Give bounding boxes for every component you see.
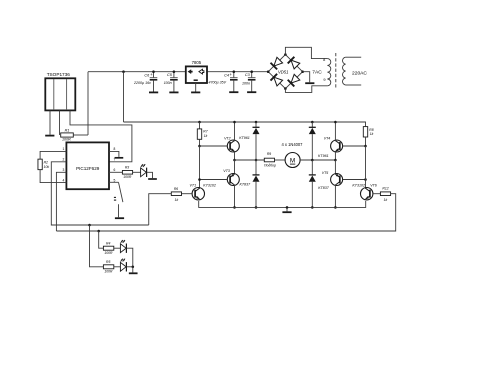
wire R3 to LED HL1 bbox=[133, 171, 141, 173]
wire R1 to +V feed bbox=[73, 134, 88, 136]
wire motor to right column bbox=[300, 159, 335, 161]
svg-text:KT837: KT837 bbox=[318, 186, 330, 190]
wire HL2 cathode to join bbox=[127, 248, 133, 267]
wire bridge top to secondary pin 8 bbox=[285, 47, 327, 58]
svg-text:8: 8 bbox=[323, 57, 325, 62]
wire VT4 collector to rail bbox=[334, 122, 336, 141]
node VT5 base tap bbox=[364, 178, 367, 181]
svg-text:VT2: VT2 bbox=[224, 136, 231, 140]
svg-text:VT3: VT3 bbox=[223, 169, 230, 173]
transformer T1 primary winding bbox=[343, 57, 346, 85]
resistor R8 body bbox=[363, 127, 367, 137]
svg-text:100R: 100R bbox=[123, 175, 132, 179]
wire VT3 base bbox=[200, 179, 228, 181]
wire TSOP pin1 to ground bbox=[49, 110, 51, 134]
node bridge top corner bbox=[284, 53, 287, 56]
svg-text:VT5: VT5 bbox=[322, 171, 329, 175]
node C3 top bbox=[250, 70, 253, 73]
wire pin6 to R3 bbox=[109, 171, 122, 173]
wire bridge bottom to secondary pin 9 bbox=[285, 86, 327, 93]
wire emitters node to R9 bbox=[235, 159, 265, 161]
wire +V feed down to R1/TSOP supply bbox=[87, 72, 89, 135]
wire H-bridge bottom rail bbox=[199, 201, 366, 207]
svg-text:PIC12F629: PIC12F629 bbox=[76, 166, 100, 171]
resistor R7 body bbox=[197, 129, 201, 139]
node ground tap bbox=[286, 206, 289, 209]
switch SB1 blade bbox=[119, 182, 123, 202]
svg-text:KT961: KT961 bbox=[318, 154, 329, 158]
svg-text:2200µ 16v: 2200µ 16v bbox=[133, 81, 151, 85]
svg-text:100n: 100n bbox=[164, 81, 172, 85]
wire primary top lead bbox=[346, 56, 362, 58]
IR receiver U2 TSOP1736 body bbox=[45, 78, 75, 110]
bridge diode top-left bbox=[274, 57, 283, 66]
diode VD3 (right top, 1N4007) bbox=[309, 126, 316, 128]
svg-text:KT3102: KT3102 bbox=[203, 184, 216, 188]
svg-text:100n: 100n bbox=[242, 81, 250, 85]
wire right top diode to mid bbox=[311, 134, 313, 160]
svg-text:R1: R1 bbox=[65, 129, 70, 133]
svg-text:R6: R6 bbox=[174, 187, 178, 191]
wire bridge right corner to ground bbox=[303, 72, 310, 83]
svg-text:VT6: VT6 bbox=[370, 184, 377, 188]
node VT4 base / VT6 collector bbox=[364, 145, 367, 148]
7805 output arrow (solid) bbox=[188, 69, 193, 74]
node LED cathodes join bbox=[132, 266, 135, 269]
transistor VT1 KT3102 bbox=[192, 188, 204, 200]
resistor R12 body bbox=[380, 192, 390, 196]
regulator U3 7805 body bbox=[186, 66, 207, 83]
transformer T1 secondary winding bbox=[327, 59, 330, 86]
svg-text:R9: R9 bbox=[267, 152, 271, 156]
node rail / left diode column bbox=[255, 121, 258, 124]
svg-text:R3: R3 bbox=[125, 166, 129, 170]
svg-text:1k: 1k bbox=[175, 198, 179, 202]
node right emitters / motor wire bbox=[334, 159, 337, 162]
svg-text:10k: 10k bbox=[44, 165, 50, 169]
node VT2 base / VT1 collector bbox=[198, 145, 201, 148]
ground TSOP pin1 bbox=[45, 135, 54, 137]
wire rail to R7 bbox=[199, 122, 201, 129]
wire +V rail from x=88 to bridge bbox=[88, 71, 268, 73]
switch contact marks bbox=[114, 196, 116, 198]
wire pin5 to switch bbox=[109, 181, 119, 183]
wire base node down to VT6 collector bbox=[365, 146, 367, 189]
svg-text:1k: 1k bbox=[204, 134, 208, 138]
svg-text:R12: R12 bbox=[382, 187, 388, 191]
bridge VD51 diamond outline bbox=[268, 55, 302, 89]
LED HL2 bbox=[120, 244, 126, 253]
wire primary bottom lead bbox=[346, 84, 362, 86]
wire TSOP pin3 OUT to PIC pin7 bbox=[70, 110, 132, 161]
svg-text:9: 9 bbox=[323, 77, 325, 82]
node rail/R7 bbox=[198, 121, 201, 124]
node VT4 collector rail bbox=[334, 121, 337, 124]
wire HL1 cathode to ground bbox=[147, 172, 153, 178]
svg-text:1: 1 bbox=[62, 147, 64, 151]
svg-text:1k: 1k bbox=[384, 198, 388, 202]
node left diode bottom rail bbox=[255, 206, 258, 209]
svg-text:7AC: 7AC bbox=[312, 70, 322, 76]
node left diode mid bbox=[255, 159, 258, 162]
svg-text:100R: 100R bbox=[62, 137, 71, 141]
svg-text:KT837: KT837 bbox=[240, 183, 252, 187]
resistor R5 body bbox=[103, 265, 113, 269]
node wire1 / R5 branch bbox=[88, 224, 91, 227]
node VT3 collector bottom rail bbox=[233, 206, 236, 209]
node VT5 collector bottom rail bbox=[334, 206, 337, 209]
ground bridge minus bbox=[305, 82, 314, 84]
svg-text:4700µ 35V: 4700µ 35V bbox=[209, 81, 227, 85]
bridge diode bottom-right bbox=[291, 74, 300, 83]
ground switch bbox=[115, 217, 124, 219]
wire mid to right bottom diode bbox=[311, 160, 313, 175]
ground 7805 bbox=[191, 91, 200, 93]
LED HL3 bbox=[120, 262, 126, 271]
node rail / right diode column bbox=[311, 121, 314, 124]
transformer core (dashed) bbox=[335, 53, 337, 89]
wire VT4 emitter to right mid node bbox=[334, 151, 336, 160]
node VT3 base tap bbox=[198, 178, 201, 181]
node C6 top bbox=[152, 70, 155, 73]
capacitor C6 2200u bbox=[153, 72, 155, 78]
wire R2 bottom to pin4 bbox=[40, 170, 66, 183]
motor M1 bbox=[285, 153, 300, 168]
diode VD4 (right bottom, 1N4007) bbox=[309, 174, 316, 176]
transistor VT6 KT3102 bbox=[361, 188, 373, 200]
wire R5 branch down bbox=[90, 225, 104, 267]
wire VT5 base bbox=[343, 179, 366, 181]
ground HL1 bbox=[148, 178, 157, 180]
svg-text:5: 5 bbox=[114, 178, 116, 182]
wire R5 to LED HL3 bbox=[114, 266, 121, 268]
wire R9 to motor bbox=[275, 159, 286, 161]
node bridge right corner bbox=[301, 70, 304, 73]
node left emitters / motor wire bbox=[233, 159, 236, 162]
wire mid to left bottom diode bbox=[255, 160, 257, 175]
bridge diode top-right bbox=[291, 60, 300, 69]
node right diode mid bbox=[311, 159, 314, 162]
node bridge bottom corner bbox=[284, 87, 287, 90]
node +V rail / H-bridge feed bbox=[122, 70, 125, 73]
transistor VT3 KT837 bbox=[227, 174, 239, 186]
node C5 top bbox=[173, 70, 176, 73]
wire VT6 base to R12 bbox=[373, 193, 380, 195]
transistor VT5 KT837 bbox=[331, 174, 343, 186]
svg-text:1k: 1k bbox=[370, 132, 374, 136]
resistor R3 body bbox=[122, 171, 132, 175]
wire VT2 collector to rail bbox=[234, 122, 236, 141]
svg-text:TSOP1736: TSOP1736 bbox=[47, 72, 71, 77]
wire VT5 emitter from mid node bbox=[334, 160, 336, 174]
wire VT5 collector to bottom rail bbox=[334, 185, 336, 208]
wire pin2 to control wire 1 bbox=[51, 162, 148, 225]
wire TSOP pin2 down to R1 bbox=[59, 110, 61, 135]
svg-text:220AC: 220AC bbox=[352, 71, 367, 77]
wire pin3 to control wire 2 bbox=[56, 172, 66, 231]
wire pin8 to ground bbox=[109, 151, 119, 157]
wire R6 left to control wire 1 bbox=[149, 194, 172, 225]
node C4 top bbox=[233, 70, 236, 73]
wire +V drop to H-bridge top rail bbox=[123, 72, 125, 122]
ground C5 bbox=[169, 91, 178, 93]
capacitor C5 100n bbox=[173, 72, 175, 78]
wire LED join to ground bbox=[132, 267, 134, 273]
wire left bottom diode to bottom rail bbox=[255, 182, 257, 208]
wire bottom rail ground tap bbox=[286, 207, 288, 211]
svg-text:VT1: VT1 bbox=[190, 184, 197, 188]
wire R7 to VT2 base node bbox=[199, 139, 201, 146]
svg-text:VT4: VT4 bbox=[324, 136, 331, 140]
ground C3 bbox=[247, 91, 256, 93]
node VT2 collector rail bbox=[233, 121, 236, 124]
wire base node down to VT1 collector bbox=[199, 146, 201, 189]
ground LEDs bbox=[129, 272, 138, 274]
wire VT2 base bbox=[200, 145, 228, 147]
ground H-bridge bbox=[282, 211, 291, 213]
wire switch to ground bbox=[118, 204, 120, 217]
wire R12 to control wire 2 loop bbox=[56, 194, 395, 231]
resistor R6 body bbox=[171, 192, 181, 196]
transistor VT2 KT961 bbox=[227, 140, 239, 152]
resistor R9 body bbox=[264, 158, 274, 162]
resistor R1 body bbox=[61, 133, 74, 137]
svg-text:KT961: KT961 bbox=[239, 136, 250, 140]
svg-text:100R: 100R bbox=[104, 270, 113, 274]
svg-text:3: 3 bbox=[62, 168, 64, 172]
diode VD1 (left top, 1N4007) bbox=[253, 126, 260, 128]
LED HL1 bbox=[141, 168, 147, 177]
svg-text:C4: C4 bbox=[224, 74, 229, 78]
wire HL3 cathode to join bbox=[127, 266, 133, 268]
IC U1 PIC12F629 body bbox=[66, 142, 109, 189]
bridge diode bottom-left bbox=[274, 77, 283, 86]
resistor R4 body bbox=[103, 246, 113, 250]
svg-text:4: 4 bbox=[62, 178, 64, 182]
wire R8 to VT4 base node bbox=[365, 137, 367, 146]
wire H-bridge top rail bbox=[124, 122, 366, 126]
svg-text:VD51: VD51 bbox=[278, 69, 288, 74]
node right diode bottom rail bbox=[311, 206, 314, 209]
wire left top diode to mid bbox=[255, 134, 257, 160]
node wire2 / R4 branch bbox=[97, 230, 100, 233]
transistor VT4 KT961 bbox=[331, 140, 343, 152]
node bridge left corner bbox=[267, 70, 270, 73]
wire pin1 to R2 top bbox=[40, 151, 66, 159]
svg-text:6: 6 bbox=[114, 168, 116, 172]
svg-text:4 x 1N4007: 4 x 1N4007 bbox=[282, 142, 304, 147]
wire VT3 emitter from mid node bbox=[234, 160, 236, 174]
svg-text:Подбор: Подбор bbox=[264, 164, 276, 168]
wire VT4 base to R8 column bbox=[343, 145, 366, 147]
svg-text:KT3102: KT3102 bbox=[352, 184, 365, 188]
svg-text:R5: R5 bbox=[106, 260, 110, 264]
7805 input arrow (outline) bbox=[199, 69, 204, 74]
svg-text:2: 2 bbox=[62, 158, 64, 162]
resistor R2 body bbox=[38, 159, 42, 170]
wire VT2 emitter to mid node bbox=[234, 151, 236, 160]
svg-text:M: M bbox=[290, 157, 295, 164]
7805 gnd mark bbox=[194, 79, 198, 81]
wire VT3 collector to bottom rail bbox=[234, 185, 236, 208]
capacitor C3 100n bbox=[251, 72, 253, 78]
ground pin8 (bar) bbox=[115, 157, 124, 159]
wire R4 to LED HL2 bbox=[114, 247, 121, 249]
wire VT1 base from R6 bbox=[182, 193, 193, 195]
svg-text:R4: R4 bbox=[106, 242, 110, 246]
wire rail to left top diode bbox=[255, 122, 257, 127]
wire R4 branch down bbox=[99, 231, 104, 248]
capacitor C4 4700u bbox=[233, 72, 235, 78]
svg-text:7805: 7805 bbox=[192, 60, 202, 65]
ground C6 bbox=[149, 91, 158, 93]
svg-text:8: 8 bbox=[114, 147, 116, 151]
svg-text:100R: 100R bbox=[104, 251, 113, 255]
diode VD2 (left bottom, 1N4007) bbox=[253, 174, 260, 176]
wire rail to right top diode bbox=[311, 122, 313, 127]
wire 7805 gnd pin bbox=[195, 83, 197, 92]
ground C4 bbox=[229, 91, 238, 93]
wire right bottom diode to bottom rail bbox=[311, 182, 313, 208]
